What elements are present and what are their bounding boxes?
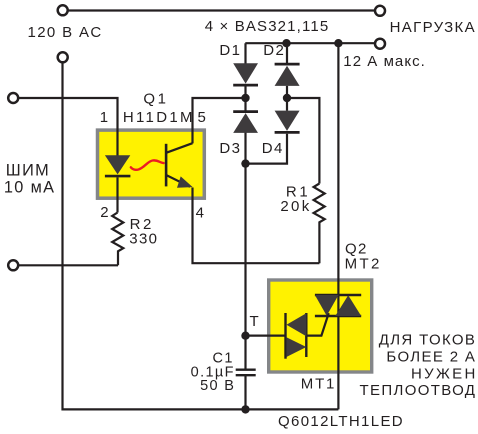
triac main top bar MT2 bbox=[315, 294, 361, 296]
junction node bridge top / D2 bbox=[282, 39, 290, 47]
diode D1 bbox=[233, 63, 258, 85]
diode D3 bbox=[233, 112, 258, 133]
svg-text:НУЖЕН: НУЖЕН bbox=[411, 365, 478, 382]
wire bridge right column through D2 D4 bbox=[246, 43, 288, 163]
triac main bottom bar MT1 bbox=[315, 315, 361, 317]
opto LED anode triangle bbox=[105, 155, 130, 174]
optocoupler U-box Q1 body bbox=[98, 130, 205, 198]
wire top rail from AC terminal to load terminal bbox=[68, 9, 375, 11]
capacitor C1 plates bbox=[236, 370, 256, 376]
svg-text:Q6012LTH1LED: Q6012LTH1LED bbox=[278, 413, 404, 430]
svg-text:12 А макс.: 12 А макс. bbox=[343, 53, 426, 70]
terminal load top bbox=[375, 6, 385, 16]
terminal 120V neutral bbox=[58, 52, 68, 62]
junction node C1 bottom rail bbox=[241, 405, 249, 413]
resistor R1 zigzag bbox=[314, 184, 325, 264]
junction node bridge bottom bbox=[241, 159, 249, 167]
triac gate element lower triangle bbox=[286, 337, 306, 357]
terminal load bottom bbox=[375, 39, 385, 49]
junction node bridge top / MT2 bbox=[334, 39, 342, 47]
triac Q2 body bbox=[269, 280, 372, 372]
triac main left triangle bbox=[315, 295, 339, 316]
triac gate element upper triangle bbox=[287, 313, 307, 336]
wire node M2 to R1 top bbox=[287, 98, 319, 184]
svg-text:2: 2 bbox=[100, 204, 110, 221]
junction node T gate bbox=[241, 332, 249, 340]
wire neutral left vertical and bottom rail bbox=[63, 63, 339, 410]
svg-text:20k: 20k bbox=[280, 198, 311, 215]
svg-text:H11D1M: H11D1M bbox=[123, 109, 195, 126]
triac main right triangle bbox=[335, 295, 361, 316]
opto LED cathode bar bbox=[105, 175, 130, 178]
triac gate element left bar bbox=[284, 313, 286, 359]
wire opto pin 2 to R2 bbox=[116, 177, 118, 212]
svg-text:T: T bbox=[249, 313, 260, 330]
svg-text:120 В AC: 120 В AC bbox=[28, 24, 103, 41]
opto phototransistor base bar bbox=[165, 144, 168, 187]
wire PWM input top to opto pin 1 bbox=[19, 98, 118, 157]
svg-text:4 × BAS321,115: 4 × BAS321,115 bbox=[205, 18, 330, 35]
svg-text:50 В: 50 В bbox=[200, 378, 235, 394]
resistor R2 zigzag bbox=[112, 213, 123, 266]
svg-text:MT2: MT2 bbox=[345, 256, 382, 273]
wire load bottom to bridge top rail bbox=[245, 42, 374, 44]
junction node M1 collector bbox=[241, 94, 249, 102]
svg-text:ДЛЯ ТОКОВ: ДЛЯ ТОКОВ bbox=[379, 332, 477, 349]
terminal PWM bottom bbox=[8, 260, 18, 270]
opto phototransistor emitter with arrow bbox=[166, 175, 193, 188]
diode D2 bbox=[275, 64, 300, 86]
svg-text:Q1: Q1 bbox=[143, 91, 168, 108]
svg-text:D3: D3 bbox=[219, 140, 241, 157]
svg-text:ТЕПЛООТВОД: ТЕПЛООТВОД bbox=[360, 382, 477, 399]
opto red light squiggle bbox=[131, 160, 164, 169]
junction node M2 to R1 bbox=[283, 94, 291, 102]
svg-text:D1: D1 bbox=[219, 42, 241, 59]
svg-text:4: 4 bbox=[196, 205, 206, 222]
svg-text:D4: D4 bbox=[262, 140, 284, 157]
svg-text:5: 5 bbox=[198, 109, 208, 126]
opto phototransistor collector bbox=[166, 143, 192, 153]
triac gate element right bar bbox=[305, 313, 307, 357]
svg-text:10 мА: 10 мА bbox=[4, 179, 55, 197]
diode D4 bbox=[275, 111, 300, 133]
wire MT2 vertical from top rail through triac to bottom rail bbox=[337, 43, 339, 409]
wire bridge left column through D1 D3 down to gate and C1 bbox=[244, 43, 246, 409]
svg-text:330: 330 bbox=[129, 231, 158, 248]
wire PWM input bottom to R2 bbox=[19, 264, 119, 266]
wire gate from T node into triac bbox=[246, 313, 329, 336]
svg-text:1: 1 bbox=[100, 109, 110, 126]
svg-text:БОЛЕЕ 2 А: БОЛЕЕ 2 А bbox=[386, 349, 476, 366]
wire opto pin 4 emitter down and right to R1 bottom bbox=[193, 188, 320, 264]
terminal 120V line bbox=[58, 5, 68, 15]
svg-text:MT1: MT1 bbox=[301, 376, 336, 393]
terminal PWM top bbox=[8, 93, 18, 103]
svg-text:НАГРУЗКА: НАГРУЗКА bbox=[390, 19, 476, 36]
svg-text:D2: D2 bbox=[263, 42, 285, 59]
svg-text:ШИМ: ШИМ bbox=[6, 161, 50, 179]
wire opto pin 5 collector rail to node bbox=[193, 98, 246, 143]
